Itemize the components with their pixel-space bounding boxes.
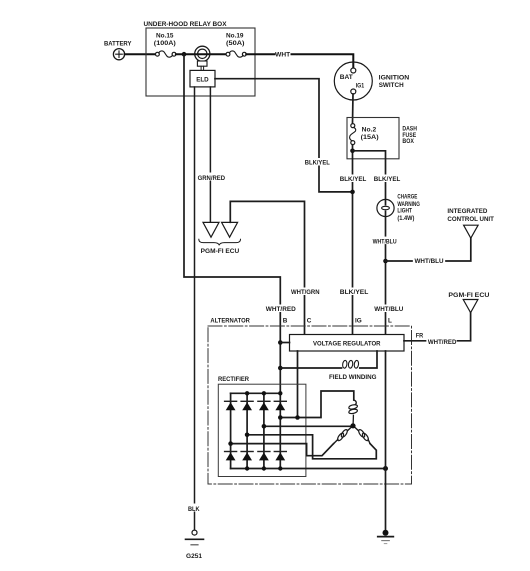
terminal labels B C IG L (283, 318, 392, 325)
stator right coil (353, 426, 370, 444)
svg-text:BLK/YEL: BLK/YEL (340, 176, 367, 183)
svg-text:(15A): (15A) (361, 134, 379, 141)
wire GRN/RED ELD to PGM-FI ECU (197, 87, 226, 222)
field winding L1 (329, 360, 377, 381)
svg-text:PGM-FI ECU: PGM-FI ECU (201, 248, 240, 255)
svg-text:No.19: No.19 (226, 33, 244, 40)
node B wire to regulator stub (278, 340, 283, 345)
svg-text:C: C (307, 318, 312, 325)
svg-text:FIELD WINDING: FIELD WINDING (329, 374, 377, 381)
diode D8 (274, 452, 286, 461)
node bottom bus junctions (245, 466, 388, 471)
wire FR to PGM-FI ECU (404, 313, 471, 346)
svg-text:BLK/YEL: BLK/YEL (340, 289, 369, 296)
ELD unit box (190, 70, 215, 87)
svg-text:BOX: BOX (402, 138, 414, 145)
wire light to alternator L (385, 211, 387, 334)
svg-text:BATTERY: BATTERY (104, 41, 132, 48)
diode D2 (241, 401, 253, 410)
svg-text:(1.4W): (1.4W) (397, 215, 414, 222)
wire fuse No.15 to ELD sensor (176, 53, 227, 55)
svg-text:WHT/RED: WHT/RED (266, 306, 296, 313)
svg-text:WHT/BLU: WHT/BLU (415, 258, 444, 265)
charge warning light (1.4W) (377, 194, 420, 222)
node BLK/YEL junction (350, 190, 355, 195)
label BLK/YEL on IG wire (339, 175, 366, 184)
wire alternator internal ground (385, 351, 387, 531)
diode D4 (274, 401, 286, 410)
svg-text:G251: G251 (186, 553, 202, 560)
PGM-FI ECU connector pair (199, 222, 241, 255)
fuse No.15 (100A) (154, 33, 176, 58)
voltage regulator U1 (290, 335, 405, 352)
wire IG1 to dash fuse (352, 94, 355, 123)
wire battery to fuse No.15 (125, 53, 156, 55)
rectifier column 2 (246, 393, 248, 468)
ground alternator case (378, 530, 394, 544)
rectifier top bus (231, 392, 281, 394)
wire phase 3 to stator left coil (231, 444, 334, 456)
svg-text:CONTROL UNIT: CONTROL UNIT (447, 216, 494, 223)
svg-text:PGM-FI ECU: PGM-FI ECU (448, 292, 489, 299)
svg-text:WHT: WHT (275, 52, 290, 59)
svg-text:WHT/BLU: WHT/BLU (374, 306, 403, 313)
battery B+ (104, 41, 132, 60)
svg-text:GRN/RED: GRN/RED (198, 175, 226, 182)
ignition switch (334, 62, 409, 100)
svg-text:RECTIFIER: RECTIFIER (218, 376, 249, 383)
rectifier column 4 (279, 393, 281, 468)
wire field winding circuit (280, 351, 377, 418)
node fuse No.2 output (350, 149, 355, 154)
svg-text:IG1: IG1 (356, 83, 365, 90)
fuse No.19 (50A) (226, 33, 246, 58)
wire WHT/BLU to integrated control unit (386, 238, 471, 265)
svg-text:B: B (283, 318, 288, 325)
diode D5 (225, 452, 237, 461)
svg-text:ELD: ELD (196, 77, 209, 84)
svg-text:VOLTAGE REGULATOR: VOLTAGE REGULATOR (313, 340, 381, 347)
svg-text:INTEGRATED: INTEGRATED (447, 208, 487, 215)
rectifier bottom bus to case ground (231, 468, 386, 470)
wire colour labels above alternator (265, 288, 404, 314)
diode D1 (225, 401, 237, 410)
svg-text:WHT/BLU: WHT/BLU (373, 238, 397, 245)
stator left coil (334, 426, 354, 444)
node top bus junctions (245, 391, 283, 395)
rectifier box (218, 376, 306, 477)
rectifier column 3 (263, 393, 265, 468)
svg-text:No.15: No.15 (156, 33, 174, 40)
rectifier column 1 (230, 393, 232, 468)
wire WHT/GRN alternator C to ECU (230, 201, 304, 334)
svg-text:CHARGE: CHARGE (397, 194, 418, 201)
svg-text:SWITCH: SWITCH (379, 82, 404, 89)
svg-text:No.2: No.2 (362, 127, 377, 134)
svg-text:WHT/GRN: WHT/GRN (291, 289, 320, 296)
wire neutral to Y centre (264, 425, 353, 427)
svg-text:UNDER-HOOD RELAY BOX: UNDER-HOOD RELAY BOX (144, 21, 228, 28)
svg-text:(100A): (100A) (154, 40, 176, 47)
label BLK/YEL on light wire (373, 175, 400, 184)
wire WHT fuse No.19 to ignition switch BAT (246, 52, 353, 68)
integrated control unit connector (447, 208, 494, 238)
wire phase 2 to stator right coil (247, 435, 376, 459)
ELD current sensor (195, 46, 210, 70)
wire B stub to regulator (280, 342, 289, 344)
diode D3 (258, 401, 270, 410)
diode D7 (258, 452, 270, 461)
wire B+ feed to alternator B (184, 54, 280, 393)
diode D6 (241, 452, 253, 461)
alternator outer box (208, 317, 412, 484)
node phase taps (278, 415, 300, 420)
svg-text:IGNITION: IGNITION (379, 75, 410, 82)
PGM-FI ECU connector right (448, 292, 489, 313)
label WHT/BLU below light (372, 237, 400, 246)
wire phase 1 to stator top coil (280, 391, 354, 418)
stator top coil (348, 400, 357, 426)
node stator Y centre (350, 423, 355, 428)
dash fuse box (347, 118, 417, 159)
node WHT/BLU junction (383, 259, 388, 264)
node B wire to field winding (278, 366, 283, 371)
svg-text:IG: IG (355, 318, 362, 325)
svg-text:LIGHT: LIGHT (397, 208, 412, 215)
under-hood relay box (144, 21, 256, 96)
wire fuse No.2 output down to alternator IG (352, 145, 354, 335)
ground G251 (186, 530, 204, 560)
fuse No.2 (15A) (350, 124, 379, 145)
svg-text:FR: FR (416, 333, 424, 340)
svg-text:L: L (388, 318, 392, 325)
svg-text:BLK/YEL: BLK/YEL (374, 176, 401, 183)
svg-text:BLK/YEL: BLK/YEL (305, 159, 330, 166)
node junction after fuse No.15 (182, 52, 187, 57)
label BLK/YEL on ELD feed (304, 158, 331, 166)
wire ELD feed BLK/YEL (215, 79, 353, 192)
svg-text:ALTERNATOR: ALTERNATOR (210, 317, 250, 324)
svg-text:BAT: BAT (340, 74, 353, 81)
svg-text:WHT/RED: WHT/RED (428, 339, 457, 346)
svg-text:BLK: BLK (188, 506, 200, 513)
svg-text:(50A): (50A) (226, 40, 245, 47)
wire BLK ground from ELD (187, 87, 201, 530)
wire branch to charge warning light (353, 151, 386, 205)
